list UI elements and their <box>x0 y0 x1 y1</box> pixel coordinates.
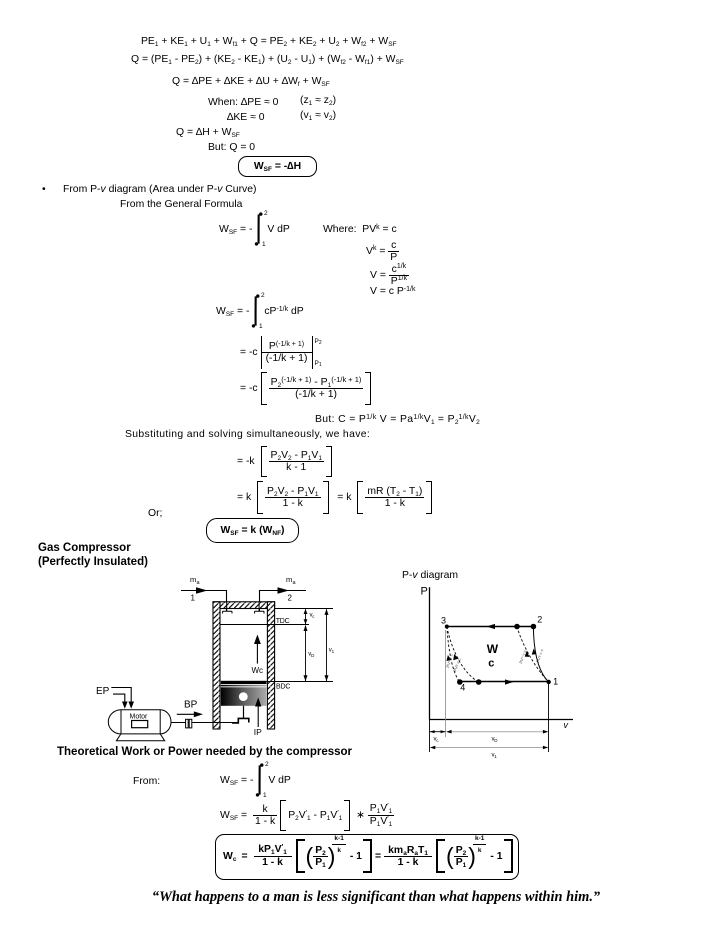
inlet pipe 1 <box>181 587 227 611</box>
integral equation 2 <box>216 295 304 328</box>
extension line below P axis <box>429 720 431 753</box>
arrowhead on inner expansion curve <box>446 655 451 661</box>
shaft coupling <box>186 719 189 728</box>
point 4 <box>457 679 463 685</box>
motor body <box>108 710 171 741</box>
point 2 <box>531 624 537 630</box>
crank <box>232 718 249 723</box>
svg-text:a: a <box>293 580 297 586</box>
compression curve 1-2' (dashed) <box>517 627 549 683</box>
dimension v_1 (cylinder) <box>325 609 329 681</box>
boxed result Wsf = k Wnf <box>206 518 299 543</box>
svg-text:BP: BP <box>184 700 198 711</box>
point 1 <box>547 680 551 684</box>
inlet valve <box>223 602 232 614</box>
svg-text:1: 1 <box>191 594 196 603</box>
svg-text:m: m <box>190 575 196 584</box>
svg-text:a: a <box>197 580 201 586</box>
svg-text:4: 4 <box>460 683 465 693</box>
drive shaft <box>171 722 238 724</box>
svg-text:2: 2 <box>288 594 293 603</box>
v axis <box>430 719 574 721</box>
point 2' on discharge line <box>514 624 520 630</box>
IP arrow <box>255 698 261 728</box>
point 4' on intake line <box>476 679 482 685</box>
arrowhead on solid compression curve <box>532 649 537 655</box>
BP arrow <box>177 711 203 717</box>
P axis <box>429 587 431 719</box>
BDC line <box>266 681 333 683</box>
svg-text:1: 1 <box>553 677 558 687</box>
cylinder top wall (hatched) <box>213 602 275 609</box>
arrow on 4-1 line <box>505 679 514 684</box>
final boxed equation <box>215 834 519 880</box>
svg-text:c: c <box>436 738 439 743</box>
EP lead 1 <box>111 688 134 709</box>
svg-text:Wc: Wc <box>252 666 264 675</box>
svg-text:3: 3 <box>441 615 446 625</box>
svg-text:v: v <box>564 720 569 730</box>
piston ring band <box>221 685 267 687</box>
closing quote <box>12 892 728 903</box>
dimension v_1 (P-v) <box>430 746 548 750</box>
label P-v diagram <box>402 570 458 581</box>
V = c^1/k / P^1/k <box>370 263 409 287</box>
svg-text:Motor: Motor <box>130 714 149 721</box>
bracketed equation <box>240 372 374 405</box>
extension line from point 3 <box>445 630 447 737</box>
Vk = c/P <box>366 240 399 262</box>
outlet valve <box>255 602 264 614</box>
arrowhead on outer expansion curve <box>453 654 458 660</box>
cylinder right wall (hatched) <box>267 602 274 729</box>
dimension v_D (P-v) <box>446 730 548 734</box>
TDC line <box>220 624 309 626</box>
svg-text:EP: EP <box>96 686 110 697</box>
Wsf = k/(1-k)[...] * fraction <box>220 800 394 831</box>
extension line from point 1 <box>548 684 550 752</box>
top extension line <box>275 608 333 610</box>
cylinder left wall (hatched) <box>213 602 220 729</box>
outlet pipe 2 <box>260 587 307 611</box>
svg-text:IP: IP <box>254 727 262 737</box>
svg-text:PVⁿ = c: PVⁿ = c <box>518 649 527 664</box>
process line 2-3 (discharge) <box>447 626 534 628</box>
dimension v_c (P-v) <box>430 730 446 733</box>
svg-text:m: m <box>286 575 292 584</box>
expansion curve 3-4' (dashed) <box>447 627 479 683</box>
integral equation 3 <box>220 764 291 797</box>
svg-text:W: W <box>487 642 499 656</box>
svg-text:1: 1 <box>494 754 497 759</box>
= k [ ... ] = k [ ... ] <box>237 481 435 514</box>
evaluation bar equation <box>240 336 322 369</box>
arrow on 2-3 line <box>487 624 496 629</box>
arrowhead on dashed compression curve <box>525 651 530 657</box>
piston body <box>221 687 267 706</box>
svg-text:P: P <box>421 586 428 598</box>
svg-text:D: D <box>311 653 315 658</box>
svg-text:c: c <box>312 614 315 619</box>
svg-text:BDC: BDC <box>276 684 290 691</box>
svg-text:2: 2 <box>537 615 542 625</box>
boxed result Wsf = -dH <box>238 156 317 177</box>
integral equation 1 <box>219 213 290 246</box>
process line 4-1 (intake) <box>460 681 549 683</box>
dimension v_D (cylinder) <box>304 625 308 681</box>
piston crown (black bar) <box>221 681 267 684</box>
point 3 <box>445 625 449 629</box>
svg-text:D: D <box>494 738 498 743</box>
wrist pin <box>239 692 248 701</box>
svg-text:1: 1 <box>332 649 335 654</box>
svg-text:c: c <box>488 658 494 670</box>
EP lead 2 <box>113 694 128 709</box>
svg-text:PVⁿ = c: PVⁿ = c <box>445 653 453 668</box>
Wc arrow <box>254 635 261 664</box>
connecting rod <box>243 706 245 719</box>
compression curve 1-2 (solid) <box>533 627 548 683</box>
expansion curve 3-4 (dashed) <box>447 627 460 683</box>
svg-text:TDC: TDC <box>276 618 290 625</box>
dimension v_c (cylinder) <box>304 609 308 625</box>
svg-text:PVᵍ = c: PVᵍ = c <box>535 648 544 663</box>
motor terminal box <box>132 721 148 728</box>
motor base <box>116 734 164 741</box>
